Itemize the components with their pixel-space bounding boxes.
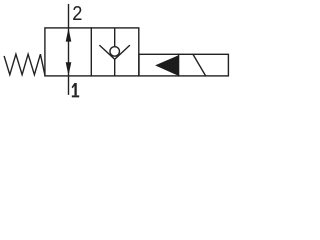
armature triangle <box>155 55 179 76</box>
square divider <box>90 28 92 76</box>
port 1 line <box>68 76 70 94</box>
arrowhead down <box>66 62 72 76</box>
port 2 line <box>68 5 70 28</box>
coil diagonal <box>193 54 206 75</box>
check valve outlet line <box>114 59 116 75</box>
svg-text:2: 2 <box>72 2 83 27</box>
solenoid divider <box>178 54 180 76</box>
flow path arrow shaft <box>68 29 70 75</box>
valve body envelope (two squares) <box>45 28 139 76</box>
solenoid box <box>139 54 228 76</box>
spring <box>4 54 45 75</box>
port label 1 <box>72 83 80 97</box>
arrowhead up <box>66 28 72 41</box>
check valve ball <box>110 47 120 57</box>
check valve inlet line <box>114 29 116 48</box>
check valve seat V <box>100 46 129 60</box>
